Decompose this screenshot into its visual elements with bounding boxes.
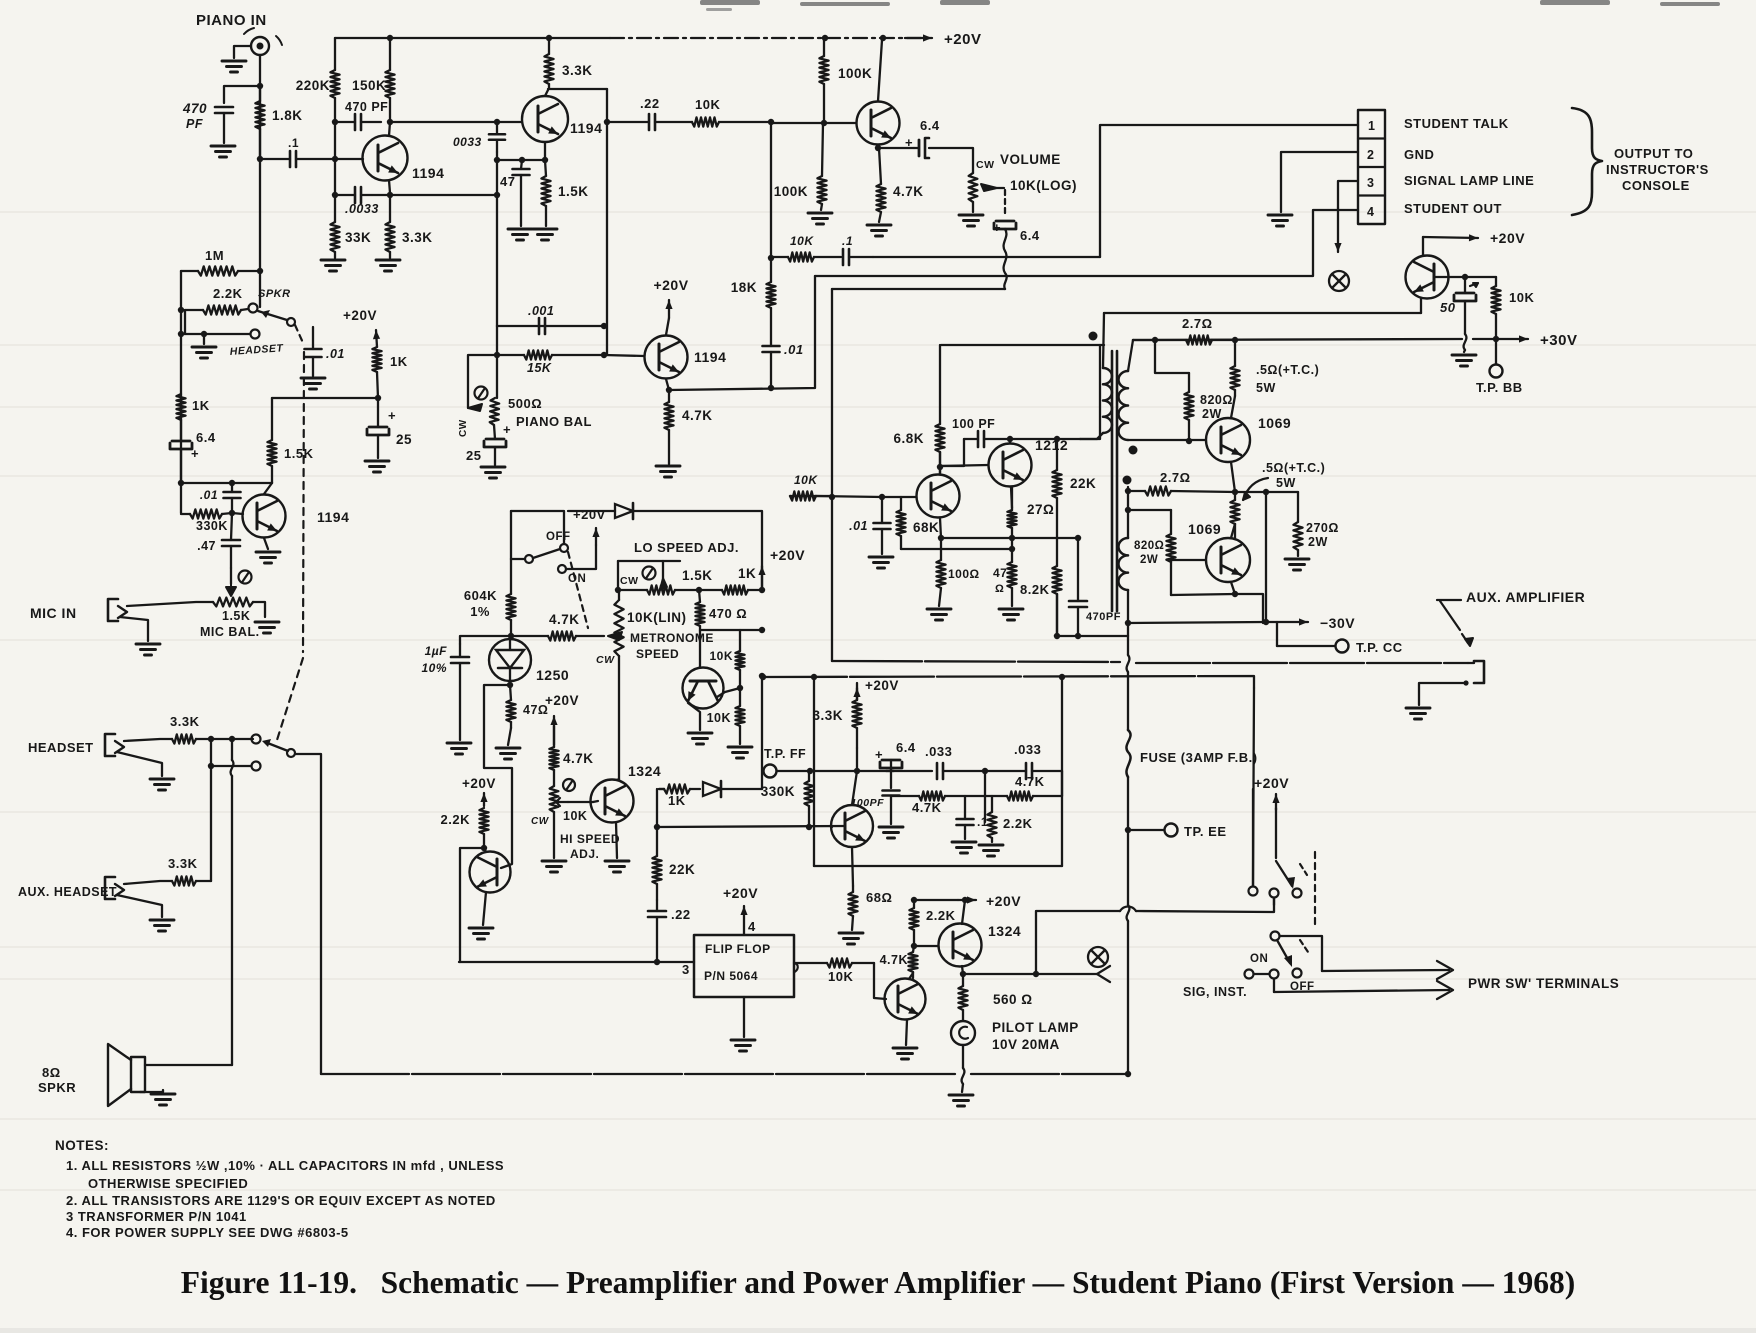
svg-text:.1: .1 xyxy=(842,234,853,248)
wire 47 to gnd xyxy=(508,728,511,745)
label 10V 20MA xyxy=(992,1037,1060,1052)
svg-text:25: 25 xyxy=(466,448,481,463)
label CW volume xyxy=(976,159,995,171)
resistor 4.7K metro xyxy=(511,631,604,640)
svg-text:8.2K: 8.2K xyxy=(1020,582,1050,597)
ground 25uF xyxy=(481,467,505,478)
resistor 2.7 top xyxy=(1133,335,1235,344)
resistor 1.8K xyxy=(255,86,264,159)
flip flop box xyxy=(694,935,794,997)
node 6.8K col xyxy=(937,464,943,470)
svg-text:10K: 10K xyxy=(707,711,731,725)
svg-text:10K: 10K xyxy=(790,234,814,248)
wire bottom bus xyxy=(321,1073,955,1075)
node y827 xyxy=(654,824,812,830)
wire filt mid drop xyxy=(984,771,986,822)
wire pwr sw out2 xyxy=(1273,979,1275,992)
lamp symbol signal line xyxy=(1329,271,1349,291)
label 25 left xyxy=(396,432,412,447)
svg-text:1194: 1194 xyxy=(412,165,444,181)
node y594 xyxy=(1232,591,1238,597)
node bus fuse xyxy=(1125,1071,1131,1077)
node hs xyxy=(208,736,235,769)
svg-text:FLIP FLOP: FLIP FLOP xyxy=(705,942,771,956)
label 820 low a xyxy=(1134,540,1164,552)
label SPKR xyxy=(258,288,291,300)
capacitor .22 xyxy=(607,114,692,130)
node .22 bottom xyxy=(654,959,660,965)
wire y438 to rail xyxy=(1080,345,1100,439)
wire q13 base xyxy=(831,826,833,828)
svg-text:.47: .47 xyxy=(197,539,216,553)
svg-text:+: + xyxy=(905,135,913,150)
node Q5 emitter xyxy=(875,145,881,151)
label 2.7 top xyxy=(1182,316,1213,331)
test point T.P. EE xyxy=(1165,824,1178,837)
svg-text:270Ω: 270Ω xyxy=(1306,521,1339,535)
resistor 10K driver base xyxy=(790,491,882,500)
wire student out row xyxy=(815,210,1358,276)
diode metronome top xyxy=(615,503,633,519)
node xfmr dot sec lower xyxy=(1123,476,1132,485)
svg-text:4.7K: 4.7K xyxy=(912,800,942,815)
wire primary to y439 xyxy=(1010,438,1080,440)
capacitor 50uF xyxy=(1454,277,1478,334)
capacitor 100PF xyxy=(964,431,1010,447)
svg-text:+20V: +20V xyxy=(723,885,758,901)
label 330K q4 xyxy=(196,519,228,533)
thyristor 1250 xyxy=(489,636,531,685)
wire pivot out xyxy=(295,754,321,1074)
svg-text:.5Ω(+T.C.): .5Ω(+T.C.) xyxy=(1262,461,1325,475)
label 33K xyxy=(345,230,371,245)
wire Q10 base row xyxy=(1171,559,1206,561)
ground 47 xyxy=(508,229,532,240)
ground mic bal xyxy=(255,622,279,633)
resistor 18K xyxy=(766,282,775,308)
capacitor 6.4 wiper xyxy=(993,220,1016,235)
label MIC IN xyxy=(30,605,77,621)
svg-text:SIG, INST.: SIG, INST. xyxy=(1183,985,1247,999)
terminal pin 3 xyxy=(1367,176,1374,190)
svg-text:10K: 10K xyxy=(828,969,853,984)
wire 3.3k to coll xyxy=(856,748,858,771)
label 3.3K hs xyxy=(170,714,200,729)
ground 47ohm xyxy=(999,609,1023,620)
transistor Q7 driver xyxy=(917,467,960,538)
ground volume xyxy=(959,215,983,226)
wire pilot bottom xyxy=(962,1045,964,1068)
ground Q16 xyxy=(605,861,629,872)
svg-text:OTHERWISE SPECIFIED: OTHERWISE SPECIFIED xyxy=(88,1176,248,1191)
svg-text:560 Ω: 560 Ω xyxy=(993,992,1033,1007)
svg-text:1.5K: 1.5K xyxy=(558,184,589,199)
svg-text:470: 470 xyxy=(182,101,207,116)
transistor Q12 metro osc xyxy=(683,631,724,730)
svg-text:25: 25 xyxy=(396,432,412,447)
svg-text:4: 4 xyxy=(748,919,756,934)
label 4.7K Q3 xyxy=(682,408,713,423)
node y483 xyxy=(178,480,235,486)
label 1324 metro xyxy=(628,763,661,779)
label 47 xyxy=(500,174,515,189)
wire 6.4 hop crossing xyxy=(1004,229,1007,289)
arrow +20V metro2 xyxy=(758,566,765,590)
label 1324 pilot xyxy=(988,923,1021,939)
label 470 metro xyxy=(709,606,747,621)
node Q2 base row xyxy=(494,119,500,125)
wire 50uF gnd hop xyxy=(1464,334,1467,352)
wire diode to right xyxy=(633,511,762,590)
svg-text:+20V: +20V xyxy=(545,693,579,708)
svg-text:+20V: +20V xyxy=(944,31,981,48)
node 15K row xyxy=(494,352,607,358)
label 500ohm xyxy=(508,396,542,411)
wire 27-47 link xyxy=(1011,538,1013,549)
svg-text:.22: .22 xyxy=(640,96,660,111)
label 22K ff xyxy=(669,862,695,877)
node x607 xyxy=(604,119,610,125)
transistor Q14 lamp sw xyxy=(885,973,926,1045)
node Q6 base xyxy=(1462,274,1468,280)
wire y594 ext xyxy=(1235,594,1263,623)
svg-text:2W: 2W xyxy=(1140,554,1158,566)
label 820 low b xyxy=(1140,554,1158,566)
svg-text:220K: 220K xyxy=(296,78,330,93)
wire x232 hop xyxy=(231,739,234,1065)
ground 470pf xyxy=(211,146,235,157)
ground 100K xyxy=(808,213,832,224)
node 820 top xyxy=(1152,337,1158,343)
node base820 xyxy=(1186,438,1192,444)
svg-text:SPEED: SPEED xyxy=(636,647,679,661)
svg-text:1324: 1324 xyxy=(628,763,661,779)
wire fuse line upper xyxy=(1127,590,1129,655)
ground flipflop xyxy=(731,1040,755,1051)
svg-text:2.7Ω: 2.7Ω xyxy=(1182,316,1213,331)
resistor 6.8K xyxy=(935,345,944,467)
label 6.4 ff xyxy=(896,740,916,755)
svg-text:6.8K: 6.8K xyxy=(893,431,924,446)
label +20V 2.2K xyxy=(462,776,496,791)
wire volume wiper dash xyxy=(1004,190,1006,217)
arrow -30V xyxy=(1266,618,1308,625)
wire switch link dashed xyxy=(568,552,588,628)
svg-text:2W: 2W xyxy=(1308,535,1328,549)
svg-text:+20V: +20V xyxy=(986,893,1021,909)
node spkr common xyxy=(178,307,207,337)
label PIANO IN xyxy=(196,12,267,29)
potentiometer 10K LIN METRONOME SPEED xyxy=(608,590,624,779)
switch power upper xyxy=(1249,861,1302,905)
test point T.P. FF xyxy=(764,765,777,778)
label +20V metro2 xyxy=(770,547,805,563)
ground 100ohm xyxy=(927,609,951,620)
wire Q7 col to 6.8K xyxy=(939,452,941,474)
wire TP CC drop xyxy=(1276,622,1278,646)
wire bus B drop xyxy=(1253,688,1254,886)
resistor 470 metro xyxy=(695,590,704,631)
wire 2.2k stub xyxy=(184,310,186,334)
node busB left xyxy=(760,674,766,680)
capacitor .033 a xyxy=(937,763,985,779)
svg-text:1M: 1M xyxy=(205,248,224,263)
wire common gnd lead xyxy=(203,334,205,344)
resistor 22K ff xyxy=(652,789,661,900)
svg-text:FUSE (3AMP F.B.): FUSE (3AMP F.B.) xyxy=(1140,750,1258,765)
svg-text:1%: 1% xyxy=(470,604,490,619)
label 22K driver xyxy=(1070,476,1096,491)
node 330k xyxy=(229,510,235,516)
label VOLUME xyxy=(1000,152,1061,167)
label -30V xyxy=(1320,615,1355,631)
wire TP CC row xyxy=(1277,645,1335,647)
wire primary bottom lead xyxy=(1080,433,1103,439)
capacitor .01 driver xyxy=(874,497,891,554)
node pilot emitter xyxy=(960,971,966,977)
switch power lower (SIG INST) xyxy=(1245,932,1309,979)
label +20V Q6 xyxy=(1490,230,1525,246)
ground 1uF xyxy=(447,743,471,754)
label +20V metro sw xyxy=(573,507,606,522)
label HI SPEED xyxy=(560,832,620,846)
label +30V xyxy=(1540,332,1577,349)
label 1M xyxy=(205,248,224,263)
node xfmr dot sec upper xyxy=(1129,446,1138,455)
wire 820 top loop xyxy=(1155,340,1189,373)
capacitor 47 Q2 xyxy=(513,160,530,226)
label .01 sw xyxy=(326,347,345,361)
capacitor .22 ff xyxy=(648,900,666,962)
arrow +20V 2.2K xyxy=(480,793,487,806)
resistor 27ohm xyxy=(1007,487,1016,538)
label FUSE xyxy=(1140,750,1258,765)
label 1194 Q1 xyxy=(412,165,444,181)
wire fuse hop over bus xyxy=(1127,655,1130,672)
wire fuse to bottom bus xyxy=(1127,921,1129,1074)
wire pwr sw out1 xyxy=(1280,936,1322,971)
svg-text:.033: .033 xyxy=(925,744,952,759)
svg-text:1K: 1K xyxy=(192,398,210,413)
wire 68K row y549 xyxy=(901,548,1012,550)
wire Q6 emitter row xyxy=(1104,312,1421,314)
wire on contact riser xyxy=(565,568,567,570)
resistor 2.2K spkr xyxy=(185,305,248,314)
wire Q10 collector row xyxy=(1171,594,1235,595)
svg-text:1. ALL RESISTORS ½W ,10% · AL: 1. ALL RESISTORS ½W ,10% · ALL CAPACITOR… xyxy=(66,1158,504,1173)
capacitor .033 b xyxy=(985,763,1062,779)
capacitor .0033 Q2 xyxy=(489,122,505,152)
node y438 xyxy=(1007,436,1060,442)
capacitor .01 sw xyxy=(305,327,322,376)
node 1k18 xyxy=(375,395,381,401)
wire student talk loop xyxy=(1100,125,1358,257)
label GND xyxy=(1404,147,1434,162)
resistor 3.3K Q1 xyxy=(385,195,394,258)
node .1 row xyxy=(332,156,338,162)
svg-text:1.5K: 1.5K xyxy=(284,446,314,461)
label 100ohm xyxy=(948,567,980,581)
transistor Q10 1069 lower xyxy=(1206,524,1250,594)
label 1212 xyxy=(1035,437,1068,453)
svg-text:6.4: 6.4 xyxy=(920,118,940,133)
capacitor .01 q4 xyxy=(224,483,241,511)
label 6.8K xyxy=(893,431,924,446)
svg-text:+20V: +20V xyxy=(343,308,377,323)
test point T.P. BB xyxy=(1490,365,1503,378)
wire on to +20v xyxy=(566,545,596,569)
svg-text:1: 1 xyxy=(1368,119,1375,133)
svg-text:6.4: 6.4 xyxy=(196,430,216,445)
label +20V ff xyxy=(865,678,899,693)
wire 3.3k coll2 xyxy=(852,771,857,805)
wire driver top rail xyxy=(941,344,1104,346)
wire fuse line low xyxy=(1127,777,1129,905)
wire ff gnd lead xyxy=(743,997,745,1037)
lamp connection chevron xyxy=(1097,966,1110,982)
label 470 PF xyxy=(182,101,207,116)
svg-text:+: + xyxy=(191,446,199,461)
label 4.7K hispeed xyxy=(563,751,594,766)
capacitor 6.4 ff xyxy=(875,747,902,788)
transistor Q1 1194 xyxy=(334,122,408,193)
wire left col vertical xyxy=(180,271,182,513)
label HEADSET xyxy=(28,740,94,755)
wire diode row xyxy=(568,510,615,512)
node driver base xyxy=(879,494,885,500)
resistor .5 top xyxy=(1230,340,1239,396)
capacitor 6.4 output coupling xyxy=(905,135,973,173)
node 27 bottom xyxy=(1009,535,1015,552)
potentiometer 10K HI SPEED ADJ xyxy=(550,779,593,812)
ground sw common xyxy=(192,347,216,358)
node piano input taps xyxy=(257,83,263,274)
resistor 68 ohm xyxy=(848,886,857,930)
svg-text:Ω: Ω xyxy=(995,583,1004,595)
node 18K top/bot xyxy=(768,119,774,391)
annotation .5 lower arrow xyxy=(1243,478,1268,500)
resistor 560 xyxy=(958,974,967,1021)
resistor 10K m1 xyxy=(735,630,744,688)
label 470pF fb xyxy=(1086,611,1121,623)
svg-text:+20V: +20V xyxy=(573,507,606,522)
svg-text:4.7K: 4.7K xyxy=(1015,774,1045,789)
node .001 xyxy=(601,323,607,329)
ground 47 scr xyxy=(496,748,520,759)
label ADJ xyxy=(570,847,599,861)
capacitor 6.4 left xyxy=(170,420,199,483)
wire ff bus xyxy=(459,961,694,963)
label .01 q4 xyxy=(200,488,218,502)
label 1K right xyxy=(390,354,408,369)
svg-text:PWR SW' TERMINALS: PWR SW' TERMINALS xyxy=(1468,976,1619,991)
svg-text:68Ω: 68Ω xyxy=(866,890,892,905)
label CW metro xyxy=(596,654,615,666)
node y492 xyxy=(1232,489,1269,495)
label 150K xyxy=(352,78,386,93)
label SPKR xyxy=(38,1080,76,1095)
label 68K xyxy=(913,520,939,535)
terminal pin 4 xyxy=(1367,205,1374,219)
wire bus A right xyxy=(1136,662,1468,664)
node 2.2klamp xyxy=(911,897,968,949)
resistor 4.7K Q3 xyxy=(664,390,673,464)
arrow +20V ff box xyxy=(740,906,747,935)
svg-text:470 PF: 470 PF xyxy=(345,100,388,114)
resistor 150K xyxy=(385,38,394,122)
wire pilot emitter row xyxy=(963,973,1036,975)
label CW pot500 xyxy=(458,419,469,437)
svg-text:.01: .01 xyxy=(784,342,804,357)
wire switch link dashed main xyxy=(277,325,304,740)
arrow +20V hispeed xyxy=(550,716,557,745)
label 100K lower xyxy=(774,184,808,199)
capacitor .0033 Q1 xyxy=(335,187,390,203)
node 470pf top xyxy=(1075,535,1081,541)
svg-text:3.3K: 3.3K xyxy=(168,856,198,871)
wire feedback vertical xyxy=(496,152,498,326)
resistor 22K driver xyxy=(1052,439,1061,538)
label 10K LIN xyxy=(627,610,687,625)
wire emitter row Q1 xyxy=(390,194,497,196)
node 1.5k junctions xyxy=(615,587,765,593)
svg-text:+30V: +30V xyxy=(1540,332,1577,349)
svg-text:GND: GND xyxy=(1404,147,1434,162)
wire Q8 base row xyxy=(940,465,988,466)
svg-text:5W: 5W xyxy=(1256,381,1276,395)
svg-text:METRONOME: METRONOME xyxy=(630,631,714,645)
ground Q12 xyxy=(688,733,712,744)
wire lamp ind row xyxy=(1036,973,1097,975)
label 8ohm xyxy=(42,1065,61,1080)
label CW lo xyxy=(620,575,639,587)
note 4 xyxy=(66,1225,349,1240)
resistor 2.2K filt xyxy=(987,796,996,842)
wire sec lower top lead xyxy=(1127,487,1129,538)
arrow +20V top rail xyxy=(905,34,932,41)
svg-text:6.4: 6.4 xyxy=(896,740,916,755)
label +20V hispeed xyxy=(545,693,579,708)
transformer secondary upper xyxy=(1119,340,1133,440)
label 3.3K Q1 xyxy=(402,230,433,245)
wire pilot gnd hop xyxy=(962,1068,965,1084)
label +20V 1K xyxy=(343,308,377,323)
label .5 low xyxy=(1262,461,1325,475)
label 15K xyxy=(527,361,552,375)
svg-text:CW: CW xyxy=(596,654,615,666)
label 4.7K fb xyxy=(1015,774,1045,789)
svg-text:.0033: .0033 xyxy=(345,202,379,216)
note 3 xyxy=(66,1209,247,1224)
label 5W low xyxy=(1276,476,1296,490)
wire Q2 base row xyxy=(390,121,522,123)
jack AUX HEADSET xyxy=(105,877,172,917)
resistor 4.7K lamp xyxy=(908,946,917,978)
wire scr left branch xyxy=(484,685,512,868)
label TP EE xyxy=(1184,824,1227,839)
label .5 top xyxy=(1256,363,1319,377)
ground piano jack xyxy=(222,61,246,72)
test point T.P. CC xyxy=(1336,640,1349,653)
resistor 1K right xyxy=(372,347,381,398)
label pin3 xyxy=(682,962,690,977)
svg-text:.033: .033 xyxy=(1014,742,1041,757)
node pilot riser xyxy=(1033,971,1039,977)
capacitor .01 18K xyxy=(763,308,780,388)
label 1.5K lo xyxy=(682,568,713,583)
svg-text:CW: CW xyxy=(620,575,639,587)
wire TP BB drop xyxy=(1495,339,1497,364)
